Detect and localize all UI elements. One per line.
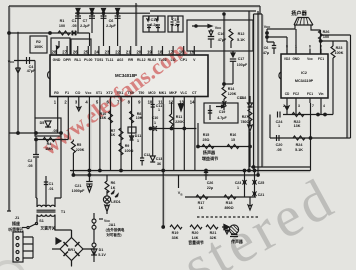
svg-text:CO: CO	[75, 91, 81, 95]
svg-text:RL1: RL1	[74, 58, 81, 62]
svg-text:PL00: PL00	[84, 58, 92, 62]
svg-text:C7: C7	[83, 19, 88, 23]
svg-text:26: 26	[73, 50, 78, 55]
svg-text:C6: C6	[264, 46, 269, 50]
svg-text:100: 100	[59, 24, 65, 28]
svg-text:C12: C12	[144, 153, 151, 157]
svg-text:插座: 插座	[12, 220, 20, 226]
svg-text:RR: RR	[128, 58, 134, 62]
svg-text:R0: R0	[54, 91, 59, 95]
svg-text:C15: C15	[172, 18, 179, 22]
svg-text:1MK: 1MK	[45, 147, 53, 151]
svg-text:RL02: RL02	[148, 58, 157, 62]
svg-text:100Ω: 100Ω	[125, 149, 134, 153]
svg-text:B: B	[180, 193, 182, 197]
svg-text:叉簧开关: 叉簧开关	[39, 226, 55, 231]
svg-text:R15: R15	[203, 133, 210, 137]
svg-text:1000μF: 1000μF	[72, 189, 85, 193]
svg-text:对可看去): 对可看去)	[106, 232, 121, 237]
svg-text:.05: .05	[52, 129, 57, 133]
svg-text:1: 1	[137, 139, 139, 143]
svg-text:21: 21	[126, 50, 131, 55]
svg-text:47μF: 47μF	[27, 69, 36, 73]
svg-text:C17: C17	[238, 57, 245, 61]
svg-text:Vcc: Vcc	[85, 91, 91, 95]
svg-text:R21: R21	[210, 231, 217, 235]
svg-text:5: 5	[320, 45, 322, 49]
svg-text:10: 10	[148, 100, 153, 105]
svg-text:.05: .05	[27, 164, 32, 168]
svg-text:5.1V: 5.1V	[98, 253, 106, 257]
svg-text:1K: 1K	[199, 206, 204, 210]
svg-text:VD2: VD2	[284, 57, 290, 61]
svg-text:J1: J1	[15, 215, 20, 220]
svg-text:扬声器: 扬声器	[203, 149, 216, 155]
svg-text:13K: 13K	[294, 124, 301, 128]
svg-text:DPR: DPR	[63, 58, 71, 62]
svg-text:TX1: TX1	[117, 91, 123, 95]
svg-text:1K: 1K	[111, 133, 116, 137]
svg-text:C21: C21	[75, 184, 82, 188]
svg-text:JA1: JA1	[109, 223, 116, 227]
svg-text:R24: R24	[296, 143, 304, 147]
svg-text:F1: F1	[65, 91, 69, 95]
svg-text:D5: D5	[40, 121, 45, 125]
svg-text:25Ω: 25Ω	[203, 138, 210, 142]
svg-text:Vcc: Vcc	[215, 26, 222, 30]
svg-text:C26: C26	[207, 181, 214, 185]
svg-text:1: 1	[237, 186, 239, 190]
svg-text:25: 25	[83, 50, 88, 55]
svg-text:TX0: TX0	[127, 91, 133, 95]
svg-text:Vcc: Vcc	[264, 25, 271, 29]
svg-text:C19: C19	[219, 110, 226, 114]
svg-text:2.2μF: 2.2μF	[80, 24, 90, 28]
svg-text:220K: 220K	[175, 120, 184, 124]
svg-text:T50: T50	[138, 91, 144, 95]
svg-text:1K: 1K	[111, 186, 116, 190]
svg-text:.01: .01	[48, 187, 53, 191]
svg-text:33K: 33K	[172, 236, 179, 240]
svg-text:C10: C10	[152, 116, 159, 120]
svg-text:LO: LO	[171, 58, 176, 62]
svg-text:5.1K: 5.1K	[237, 38, 245, 42]
svg-text:MKF: MKF	[169, 91, 177, 95]
svg-text:R27: R27	[242, 115, 249, 119]
svg-text:RL12: RL12	[137, 58, 146, 62]
svg-text:传声器: 传声器	[230, 239, 244, 244]
svg-text:20: 20	[136, 50, 141, 55]
svg-text:CD: CD	[285, 92, 290, 96]
svg-text:3: 3	[298, 104, 300, 108]
svg-text:R5: R5	[77, 143, 82, 147]
svg-text:C1: C1	[49, 182, 54, 186]
svg-text:MC34119P: MC34119P	[295, 79, 314, 83]
svg-text:27: 27	[62, 50, 67, 55]
svg-text:890Ω: 890Ω	[224, 206, 233, 210]
svg-text:扬户器: 扬户器	[291, 9, 307, 17]
svg-text:23: 23	[105, 50, 110, 55]
svg-text:47μ: 47μ	[263, 51, 270, 55]
svg-text:2.2μF: 2.2μF	[106, 24, 116, 28]
svg-text:R11: R11	[176, 115, 182, 119]
svg-text:R16: R16	[230, 133, 237, 137]
svg-text:C6: C6	[109, 19, 114, 23]
svg-text:LED1: LED1	[111, 200, 120, 204]
svg-text:1: 1	[278, 124, 280, 128]
svg-text:A02: A02	[117, 58, 123, 62]
svg-text:D11: D11	[135, 134, 141, 138]
svg-text:R19: R19	[172, 231, 179, 235]
svg-text:1: 1	[158, 108, 160, 112]
svg-text:FC2: FC2	[293, 92, 299, 96]
svg-text:TO51: TO51	[95, 58, 104, 62]
svg-text:22: 22	[115, 50, 120, 55]
svg-text:XT2: XT2	[106, 91, 112, 95]
svg-text:220K: 220K	[76, 148, 85, 152]
svg-text:4: 4	[323, 104, 325, 108]
svg-text:R6: R6	[111, 181, 116, 185]
svg-text:5.1K: 5.1K	[295, 148, 303, 152]
svg-text:2: 2	[283, 104, 285, 108]
svg-text:TL11: TL11	[106, 58, 114, 62]
svg-text:14: 14	[190, 100, 195, 105]
svg-text:7: 7	[312, 104, 314, 108]
svg-text:C13: C13	[156, 157, 163, 161]
svg-text:R20: R20	[192, 231, 199, 235]
svg-text:24: 24	[94, 50, 99, 55]
svg-text:(含外接俩电: (含外接俩电	[106, 227, 125, 232]
svg-text:32K: 32K	[210, 236, 217, 240]
svg-text:8: 8	[286, 45, 288, 49]
svg-text:100K: 100K	[335, 51, 344, 55]
svg-text:R12: R12	[238, 32, 245, 36]
svg-text:C20: C20	[276, 143, 283, 147]
svg-text:1: 1	[295, 45, 297, 49]
svg-text:100μF: 100μF	[237, 63, 248, 67]
svg-text:MK1: MK1	[159, 91, 166, 95]
svg-text:120K: 120K	[228, 92, 237, 96]
svg-text:C18: C18	[240, 96, 247, 100]
svg-text:.05: .05	[276, 148, 281, 152]
svg-text:18: 18	[158, 50, 163, 55]
svg-text:MC0: MC0	[148, 91, 155, 95]
svg-text:IC2: IC2	[301, 71, 307, 75]
svg-text:16: 16	[179, 50, 184, 55]
svg-text:R18: R18	[226, 201, 233, 205]
svg-text:Vcc: Vcc	[8, 60, 15, 64]
svg-text:19: 19	[147, 50, 152, 55]
svg-text:.05: .05	[71, 24, 76, 28]
svg-text:C25: C25	[258, 181, 265, 185]
svg-text:GND: GND	[53, 58, 61, 62]
svg-text:16K: 16K	[100, 116, 107, 120]
svg-text:VLC: VLC	[180, 91, 187, 95]
svg-text:R9: R9	[125, 144, 130, 148]
svg-text:47μF: 47μF	[218, 38, 227, 42]
svg-text:2.2μ: 2.2μ	[150, 23, 158, 27]
svg-text:10K: 10K	[136, 116, 143, 120]
svg-text:XT1: XT1	[96, 91, 102, 95]
svg-text:100K: 100K	[34, 45, 43, 49]
svg-text:2.2μ: 2.2μ	[172, 23, 180, 27]
svg-text:R14: R14	[228, 87, 235, 91]
svg-text:R26: R26	[323, 30, 330, 34]
svg-text:R23: R23	[336, 46, 343, 50]
svg-text:FC1: FC1	[318, 57, 324, 61]
svg-text:15: 15	[231, 138, 235, 142]
svg-text:C2: C2	[28, 159, 33, 163]
svg-text:CP1: CP1	[180, 58, 187, 62]
svg-text:R17: R17	[198, 201, 205, 205]
svg-text:15: 15	[189, 50, 194, 55]
svg-text:R2: R2	[36, 40, 41, 44]
svg-text:听筒寄孔: 听筒寄孔	[8, 227, 23, 232]
svg-text:Vin: Vin	[319, 92, 324, 96]
svg-text:C21: C21	[258, 193, 265, 197]
svg-text:R1: R1	[60, 19, 65, 23]
svg-text:D1: D1	[99, 248, 104, 252]
svg-text:1: 1	[154, 121, 156, 125]
svg-text:C23: C23	[235, 181, 242, 185]
svg-text:17: 17	[168, 50, 173, 55]
svg-text:增益调节: 增益调节	[202, 155, 218, 161]
svg-text:TL02: TL02	[158, 58, 166, 62]
svg-text:6: 6	[309, 45, 311, 49]
svg-text:FC1: FC1	[307, 92, 313, 96]
svg-text:4.7μF: 4.7μF	[217, 116, 227, 120]
svg-text:C16: C16	[218, 32, 225, 36]
svg-text:GND: GND	[292, 57, 300, 61]
svg-text:音量调节: 音量调节	[188, 240, 204, 245]
svg-text:C14: C14	[151, 18, 159, 22]
svg-text:BR1: BR1	[68, 248, 76, 252]
svg-text:36: 36	[157, 162, 161, 166]
svg-text:22μ: 22μ	[207, 186, 213, 190]
svg-text:S1: S1	[39, 219, 44, 223]
svg-text:780Ω: 780Ω	[241, 120, 250, 124]
svg-text:T1: T1	[61, 210, 65, 214]
svg-text:MC34018P: MC34018P	[115, 73, 137, 78]
svg-text:C1: C1	[72, 19, 77, 23]
svg-text:100: 100	[323, 35, 329, 39]
svg-text:Vcc: Vcc	[307, 57, 313, 61]
svg-text:28: 28	[52, 50, 57, 55]
